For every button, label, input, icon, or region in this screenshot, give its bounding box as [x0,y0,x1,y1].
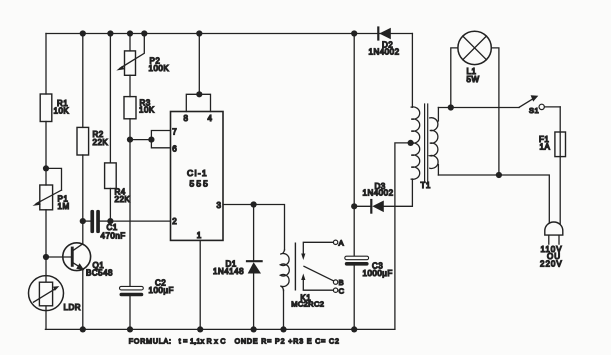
wire pin 1 [199,240,201,329]
node C3 ground [351,326,357,332]
lamp L1 [451,48,458,108]
wire R4 column [109,34,111,163]
wire bottom ground rail [45,328,395,330]
wire primary bottom [438,175,549,228]
node bracket junction [148,137,154,143]
relay contact A [333,240,337,244]
relay contact C [333,288,337,292]
svg-text:5W: 5W [467,75,480,84]
svg-text:A: A [339,238,345,247]
svg-text:1N4148: 1N4148 [213,267,244,276]
capacitor C1 [90,210,94,233]
svg-text:555: 555 [190,178,210,188]
svg-text:2: 2 [172,217,177,226]
node lamp right bottom [496,172,502,178]
node C2 ground [127,326,133,332]
svg-text:10K: 10K [54,107,70,116]
svg-text:1N4002: 1N4002 [369,47,400,56]
svg-text:t = 1,1x R x C: t = 1,1x R x C [179,338,226,345]
svg-text:6: 6 [172,144,177,153]
plug body [545,222,563,235]
node C1 left junction [80,218,86,224]
svg-text:BC548: BC548 [86,269,113,278]
svg-text:S1: S1 [529,106,539,115]
svg-text:8: 8 [184,114,189,123]
transformer T1 primary winding [430,118,438,169]
node rail P2 wiper [141,30,147,36]
svg-text:7: 7 [172,127,177,136]
wire pins 7-6 bracket [151,131,170,148]
svg-text:1N4002: 1N4002 [363,188,394,197]
node rail P2 [127,30,133,36]
node Q1 base tap [43,254,49,260]
wire primary top lead [437,108,439,122]
svg-text:100K: 100K [149,64,170,73]
node Q1 emitter ground [80,326,86,332]
capacitor C3 [345,256,369,260]
wire D2 to transformer [411,34,413,108]
transformer T1 core [424,104,426,182]
svg-text:1000μF: 1000μF [363,269,393,278]
node D1 ground [251,326,257,332]
resistor R3 [124,97,136,119]
node coil ground [280,326,286,332]
svg-text:T1: T1 [421,181,431,190]
capacitor C2 [120,286,144,290]
svg-text:470nF: 470nF [101,232,126,241]
wire C3 +V column [353,34,355,257]
op-amp U1 555 body [171,112,224,241]
diode D3 [354,205,371,207]
resistor R2 [77,127,89,155]
LDR [29,276,64,311]
svg-text:ONDE R= P2 +R3 E C= C2: ONDE R= P2 +R3 E C= C2 [235,338,340,345]
wire pins 8-4 bracket [186,94,210,111]
node T1 center tap [408,140,414,146]
svg-text:10K: 10K [139,105,155,114]
svg-text:LDR: LDR [64,303,82,312]
svg-text:1M: 1M [58,202,70,211]
fuse F1 [559,107,561,228]
node rail R2 [80,30,86,36]
svg-text:220V: 220V [540,260,563,269]
svg-text:C: C [339,286,345,295]
relay K1 core [294,243,296,290]
node lamp left [448,104,454,110]
transformer T1 secondary winding [411,107,420,179]
potentiometer P1 [40,185,53,210]
svg-text:4: 4 [208,114,213,123]
resistor R1 [40,94,52,122]
wire top +V rail [46,33,412,35]
diode D2 [377,28,379,40]
potentiometer P2 [125,51,136,75]
node bracket 8-4 [196,91,202,97]
svg-text:1: 1 [197,231,202,240]
svg-text:C1: C1 [107,223,118,232]
svg-text:22K: 22K [115,195,131,204]
wire primary bottom lead [437,165,439,176]
wire left column R1/P1/LDR [45,34,47,95]
node rail C3 [351,30,357,36]
node R3 bottom junction [127,137,133,143]
node rail R4 [107,30,113,36]
svg-text:22K: 22K [93,138,109,147]
node C1 right / pin2 junction [107,218,113,224]
svg-text:FORMULA:: FORMULA: [129,338,172,345]
transistor Q1 [63,243,91,271]
wire center tap to ground rail [395,143,411,330]
node D3 junction [351,203,357,209]
svg-text:100μF: 100μF [149,286,174,295]
relay contact blade [304,266,334,281]
node pin3 D1 junction [251,201,257,207]
node P1 top junction [43,165,49,171]
wire pins 7-6 feed [130,139,151,141]
node rail 555 [196,30,202,36]
relay contact B [333,280,337,284]
plug prongs [549,235,559,244]
wire P2/R3/C2 column [129,34,131,51]
wire 555 supply [198,34,200,95]
resistor R4 [105,163,117,189]
diode D1 [253,205,255,262]
relay K1 coil [280,250,289,291]
svg-text:1A: 1A [540,142,551,151]
wire pin 2 [110,220,170,222]
svg-text:MC2RC2: MC2RC2 [291,299,324,308]
svg-text:CI-1: CI-1 [187,168,208,178]
node pin1 ground [197,326,203,332]
switch S1 [519,98,534,107]
wire R2 / Q1 collector column [82,34,84,128]
wire pin 3 [223,205,285,251]
svg-text:3: 3 [217,201,222,210]
wire primary top to S1 [438,107,519,109]
